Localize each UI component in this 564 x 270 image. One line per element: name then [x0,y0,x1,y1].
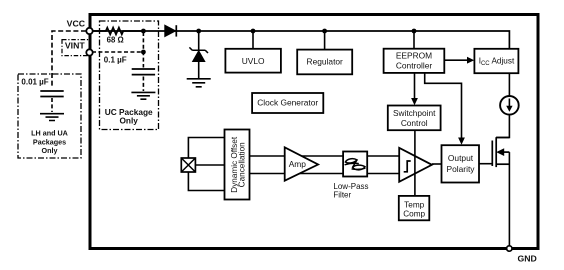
ground for 0.1uF [131,92,155,99]
hysteresis symbol [404,161,411,172]
wire: external VCC dashed lead to 0.01uF [52,31,86,86]
svg-text:Cancellation: Cancellation [237,142,246,188]
wire: hall bottom loop [188,172,224,191]
transistor Q1 MOSFET [492,137,509,167]
hall element [181,158,195,172]
svg-text:Low-Pass: Low-Pass [333,182,368,191]
block Dynamic Offset Cancellation [225,130,250,200]
svg-text:68 Ω: 68 Ω [107,35,124,44]
junction node Regulator [322,29,327,34]
wire: 0.01uF dashed lead to ground [51,98,53,112]
amplifier Amp [285,147,318,180]
diode D1 [165,25,176,36]
wire+arrow: EEPROM to Icc Adjust [444,59,468,61]
wire: current source to MOSFET drain [496,114,509,138]
wire: Icc Adjust to current source [508,73,510,96]
junction node UVLO [251,29,256,34]
block EEPROM Controller [384,49,445,73]
filter icon [345,159,366,170]
wire: Output Polarity to gate [479,163,492,165]
svg-text:Regulator: Regulator [307,56,344,66]
svg-text:EEPROM: EEPROM [396,51,432,61]
svg-text:Switchpoint: Switchpoint [393,108,436,118]
block Output Polarity [442,145,480,182]
svg-text:Controller: Controller [396,61,433,71]
block UVLO [225,49,281,73]
wire: Schmitt to Output Polarity [432,163,442,165]
svg-text:0.01 µF: 0.01 µF [21,77,48,86]
IC outline [90,15,538,249]
wire: VCC rail [90,31,509,49]
svg-text:Only: Only [42,146,58,155]
resistor R 68ohm [93,28,143,35]
block Icc Adjust [474,49,518,73]
svg-text:Clock Generator: Clock Generator [257,98,318,108]
wire: Regulator drop [324,31,326,50]
svg-text:UVLO: UVLO [242,56,265,66]
signal pair LPF to Schmitt [367,156,399,174]
svg-text:Temp: Temp [404,201,424,210]
svg-text:LH and UA: LH and UA [31,128,68,137]
svg-text:Control: Control [401,118,428,128]
wire: UVLO drop [252,31,254,49]
MOSFET body arrow [496,148,504,156]
ground for 0.01uF [40,114,64,121]
VINT dash-dot label box [62,40,90,56]
wire: hall top loop [188,138,224,159]
wire: source to GND [508,152,510,245]
block Low-Pass Filter [343,152,367,177]
junction node EEPROM [412,29,417,34]
svg-text:Comp: Comp [403,210,425,219]
junction node at resistor/cap [141,29,146,34]
wire: EEPROM drop [413,31,415,49]
svg-text:VINT: VINT [65,41,85,51]
svg-text:Filter: Filter [333,191,351,200]
wire: Switchpoint to Temp Comp through Schmitt [414,130,416,196]
block Temp Comp [399,196,430,220]
capacitor 0.1uF [132,69,155,75]
VCC terminal [86,28,92,34]
wire+arrow: EEPROM to Switchpoint [414,73,416,99]
junction node zener [196,29,201,34]
current source [500,96,519,115]
wire+arrow: EEPROM to Output Polarity [425,73,462,139]
VINT terminal [86,49,92,55]
svg-text:Polarity: Polarity [447,164,476,174]
svg-text:Amp: Amp [289,159,307,169]
ground for zener [187,79,211,87]
block Switchpoint Control [388,106,441,131]
block Clock Generator [252,93,323,113]
GND terminal [507,246,512,251]
svg-text:Only: Only [119,115,138,125]
capacitor 0.01uF [40,91,63,97]
LH and UA Packages Only dash-dot box [18,74,81,158]
junction node VINT/cap [141,50,146,55]
svg-text:Output: Output [448,153,474,163]
svg-text:GND: GND [518,253,537,263]
block Regulator [297,50,352,75]
signal pair DOC to LPF [250,156,344,174]
svg-text:VCC: VCC [67,19,86,29]
svg-text:0.1 µF: 0.1 µF [104,55,127,64]
wire: hall middle [195,164,224,166]
comparator Schmitt trigger [399,148,432,182]
zener diode [198,32,200,50]
wire: VINT dashed net [92,32,143,91]
UC Package Only dash-dot box [100,21,159,130]
